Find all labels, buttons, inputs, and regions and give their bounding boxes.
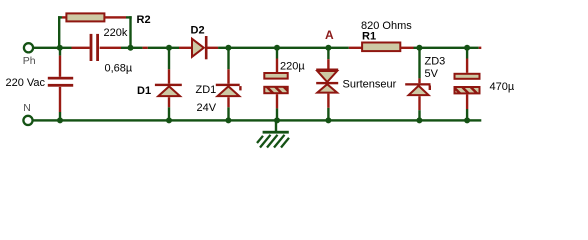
label R1 (362, 31, 376, 43)
wire D1 column green top (168, 49, 170, 69)
wire source bottom lead red (59, 87, 61, 112)
wire D1 column green bottom (168, 107, 170, 119)
wire capacitor C1 left lead red (72, 47, 90, 49)
label 220k (104, 27, 128, 39)
label Surtenseur (343, 79, 397, 91)
wire red stub top rail end (479, 47, 482, 49)
wire D1 top lead red (168, 69, 170, 83)
svg-text:R2: R2 (137, 14, 151, 26)
junction bottom rail at TVS (325, 117, 331, 123)
label D1 (137, 85, 151, 97)
label D2 (191, 25, 205, 37)
resistor R2 loop left vertical wire (58, 16, 62, 49)
svg-text:5V: 5V (425, 68, 439, 80)
wire ZD1 top lead red (227, 69, 229, 83)
diode D1 (155, 84, 182, 96)
svg-text:D2: D2 (191, 25, 205, 37)
wire R1 left lead red (349, 47, 362, 49)
wire source column green to bottom rail (59, 112, 61, 119)
wire top rail green to D2 area (121, 47, 143, 49)
svg-text:24V: 24V (197, 102, 217, 114)
wire R2 right lead red (104, 16, 126, 18)
junction top rail at C3 (464, 45, 470, 51)
wire source top lead red (59, 56, 61, 77)
wire ZD3 column green top (418, 49, 420, 78)
node A label (325, 28, 334, 42)
junction top rail at source column (57, 45, 63, 51)
svg-text:D1: D1 (137, 85, 151, 97)
junction top rail at R2 right (128, 45, 134, 51)
wire ZD3 top lead red (418, 78, 420, 83)
label N (23, 102, 31, 114)
wire red stub on top rail (143, 47, 148, 49)
junction top rail at ZD3 (416, 45, 422, 51)
label 5V (425, 68, 439, 80)
wire ZD3 column green bottom (418, 110, 420, 119)
label 220 Vac (6, 77, 46, 89)
svg-text:220 Vac: 220 Vac (6, 77, 46, 89)
wire source column green from top junction (59, 49, 61, 56)
junction top rail at C2 (274, 45, 280, 51)
wire capacitor C1 right lead red (100, 47, 121, 49)
wire C2 bottom lead red (276, 94, 278, 108)
terminal N (23, 116, 32, 125)
wire ZD1 column green top (227, 49, 229, 69)
svg-text:ZD3: ZD3 (425, 56, 446, 68)
label 24V (197, 102, 217, 114)
wire D1 bottom lead red (168, 97, 170, 107)
wire TVS bottom lead red (327, 94, 329, 108)
wire TVS column green bottom (327, 108, 329, 119)
junction bottom rail at source column (57, 117, 63, 123)
capacitor C3 470u plates (455, 74, 480, 94)
junction bottom rail at D1 (166, 117, 172, 123)
wire ZD1 bottom lead red (227, 97, 229, 107)
junction bottom rail at ground (274, 117, 280, 123)
zener diode ZD3 (405, 83, 431, 95)
svg-text:N: N (23, 102, 31, 114)
svg-text:470µ: 470µ (490, 81, 515, 93)
wire top rail green Ph to C1 lead (34, 47, 72, 49)
svg-text:ZD1: ZD1 (196, 84, 217, 96)
junction bottom rail at ZD1 (225, 117, 231, 123)
label R2 (137, 14, 151, 26)
TVS surge suppressor (Surtenseur) (316, 69, 338, 93)
wire C2 top lead red (276, 59, 278, 73)
svg-text:Ph: Ph (23, 55, 36, 67)
wire C2 column green bottom (276, 108, 278, 119)
wire C3 column green top (466, 49, 468, 59)
wire bottom rail green (33, 119, 481, 121)
label 470u (490, 81, 515, 93)
wire C3 top lead red (466, 59, 468, 73)
label 0,68u (105, 63, 133, 75)
junction top rail at ZD1 (225, 45, 231, 51)
wire R1 right lead red (400, 47, 413, 49)
wire TVS column green top (327, 49, 329, 59)
resistor R1 (362, 43, 400, 52)
wire ZD3 bottom lead red (418, 96, 420, 110)
label 220u (280, 61, 305, 73)
wire C3 column green bottom (466, 109, 468, 119)
wire top rail green to D2 lead (148, 47, 179, 49)
ground symbol (257, 122, 289, 148)
capacitor C1 0,68u plates (90, 34, 99, 61)
wire top rail green D2 to R1 (218, 47, 349, 49)
junction bottom rail at ZD3 (416, 117, 422, 123)
zener diode ZD1 (216, 84, 242, 96)
terminal Ph (24, 43, 33, 52)
label Ph (23, 55, 36, 67)
source 220 Vac plates (48, 77, 73, 87)
label ZD3 (425, 56, 446, 68)
svg-text:220k: 220k (104, 27, 128, 39)
wire ZD1 column green bottom (227, 107, 229, 119)
wire C2 column green top (276, 49, 278, 59)
diode D2 (192, 36, 208, 59)
resistor R2 (66, 13, 104, 21)
label ZD1 (196, 84, 217, 96)
label 820 Ohms (361, 20, 412, 32)
wire R2 left lead red (62, 16, 66, 18)
wire top rail green R1 to end (414, 47, 479, 49)
wire C3 bottom lead red (466, 94, 468, 109)
svg-text:A: A (325, 28, 334, 42)
wire TVS top lead red (327, 59, 329, 68)
svg-text:Surtenseur: Surtenseur (343, 79, 397, 91)
svg-text:0,68µ: 0,68µ (105, 63, 133, 75)
junction top rail at D1 (166, 45, 172, 51)
capacitor C2 220u plates (264, 73, 287, 93)
wire D2 right lead red (207, 47, 218, 49)
svg-text:R1: R1 (362, 31, 376, 43)
wire D2 left lead red (179, 47, 192, 49)
junction top rail node A (325, 45, 331, 51)
svg-text:220µ: 220µ (280, 61, 305, 73)
junction bottom rail at C3 (464, 117, 470, 123)
resistor R2 loop right vertical wire (126, 16, 132, 49)
